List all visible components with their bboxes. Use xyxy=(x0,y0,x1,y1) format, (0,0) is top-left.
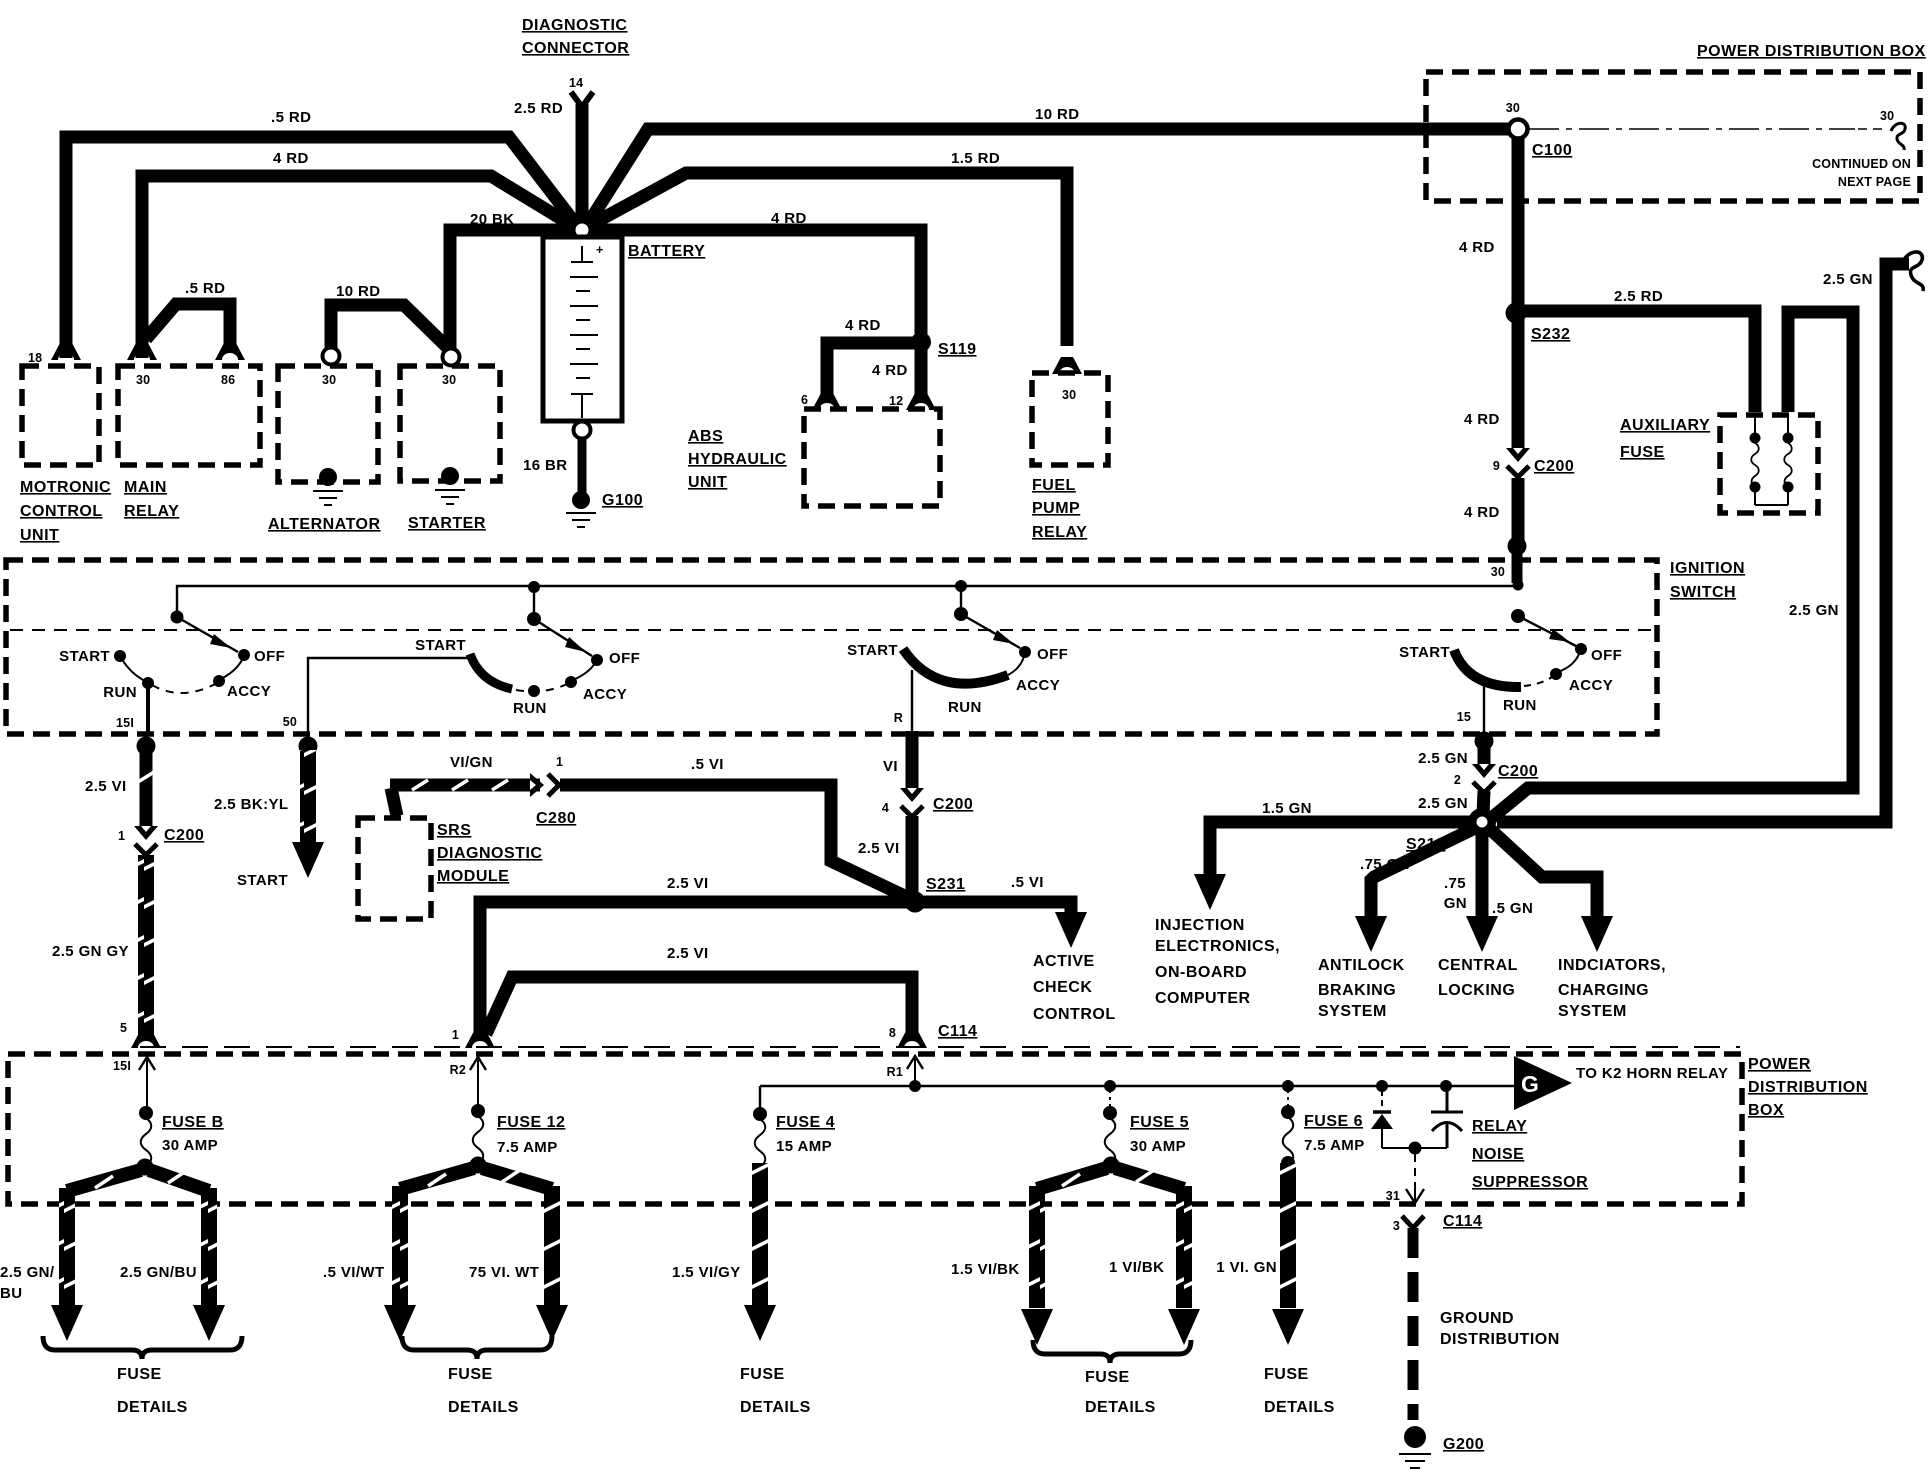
battery junction terminal circle xyxy=(574,222,591,239)
wire 1.5 RD battery to fuel pump relay xyxy=(587,173,1067,346)
wire 1.5 VI/BK fuse 5 left branch xyxy=(1037,1168,1107,1189)
svg-text:UNIT: UNIT xyxy=(688,474,727,491)
svg-text:START: START xyxy=(1399,644,1450,661)
power distribution box (lower) xyxy=(8,1054,1742,1204)
fuse 5 details brace xyxy=(1033,1340,1191,1363)
starter internal ground xyxy=(441,467,459,485)
ignition switch box xyxy=(6,560,1657,734)
svg-text:HYDRAULIC: HYDRAULIC xyxy=(688,451,787,468)
svg-text:DETAILS: DETAILS xyxy=(1085,1399,1156,1416)
svg-text:1: 1 xyxy=(118,829,125,843)
svg-text:DIAGNOSTIC: DIAGNOSTIC xyxy=(437,845,542,862)
alternator internal ground xyxy=(319,468,337,486)
svg-text:MOTRONIC: MOTRONIC xyxy=(20,479,111,496)
svg-text:50: 50 xyxy=(283,715,297,729)
wire .5 GN S213 to indicators charging system xyxy=(1491,830,1597,924)
wire 10 RD battery to C100 xyxy=(586,129,1508,227)
svg-text:2.5 GN: 2.5 GN xyxy=(1789,602,1839,619)
svg-text:C100: C100 xyxy=(1532,142,1572,159)
svg-text:CONTROL: CONTROL xyxy=(1033,1006,1116,1023)
svg-text:C200: C200 xyxy=(164,827,204,844)
svg-text:14: 14 xyxy=(569,76,583,90)
svg-text:C200: C200 xyxy=(1498,763,1538,780)
auxiliary fuse element left xyxy=(1754,416,1756,434)
ignition switch supply bus xyxy=(177,586,1518,617)
svg-text:UNIT: UNIT xyxy=(20,527,59,544)
svg-text:4 RD: 4 RD xyxy=(872,362,908,379)
wire 1 VI GN fuse 6 to fuse details xyxy=(1280,1163,1296,1308)
wire 2.5 BK:YL ignition 50 to starter circuit xyxy=(300,750,316,845)
svg-text:ANTILOCK: ANTILOCK xyxy=(1318,957,1405,974)
svg-text:ALTERNATOR: ALTERNATOR xyxy=(268,516,381,533)
auxiliary fuse element right xyxy=(1787,416,1789,434)
wire 4 RD C200 to ignition switch xyxy=(1512,478,1525,541)
svg-text:STARTER: STARTER xyxy=(408,515,486,532)
svg-text:G200: G200 xyxy=(1443,1436,1484,1453)
svg-text:ACCY: ACCY xyxy=(1016,677,1060,694)
svg-text:30: 30 xyxy=(1880,109,1894,123)
wire 1.5 VI/GY fuse 4 to fuse details xyxy=(752,1163,768,1306)
svg-text:ACCY: ACCY xyxy=(227,683,271,700)
svg-text:SYSTEM: SYSTEM xyxy=(1318,1003,1387,1020)
fuse 4 xyxy=(753,1107,767,1121)
svg-text:.75: .75 xyxy=(1444,875,1466,892)
wire VI ignition R to C200 xyxy=(906,731,919,792)
svg-text:DETAILS: DETAILS xyxy=(448,1399,519,1416)
fuse 8 xyxy=(139,1106,153,1120)
svg-text:START: START xyxy=(59,648,110,665)
svg-text:FUSE 12: FUSE 12 xyxy=(497,1114,565,1131)
svg-text:OFF: OFF xyxy=(254,648,285,665)
SRS diagnostic module xyxy=(358,818,431,919)
svg-text:30: 30 xyxy=(1506,101,1520,115)
wafer 4 moving contact (thick arc) xyxy=(1454,650,1521,687)
svg-text:C280: C280 xyxy=(536,810,576,827)
svg-text:15 AMP: 15 AMP xyxy=(776,1138,832,1155)
svg-text:12: 12 xyxy=(889,394,903,408)
svg-text:RELAY: RELAY xyxy=(1032,524,1087,541)
svg-text:S119: S119 xyxy=(938,341,976,358)
fuse 12 xyxy=(471,1104,485,1118)
svg-text:FUEL: FUEL xyxy=(1032,477,1076,494)
svg-text:4 RD: 4 RD xyxy=(1464,504,1500,521)
svg-text:9: 9 xyxy=(1493,459,1500,473)
wire 2.5 GN C200 to S213 xyxy=(1483,791,1484,815)
wire 2.5 GN/BU fuse 8 right branch xyxy=(149,1170,209,1191)
ignition switch wafer 3 xyxy=(955,580,967,592)
svg-text:R2: R2 xyxy=(450,1063,466,1077)
wire 2.5 VI S231 to power distribution box pin 1 xyxy=(480,902,909,1036)
splice S119 xyxy=(911,332,931,352)
wire 2.5 VI C200 to S231 xyxy=(906,816,919,898)
svg-text:.5 VI: .5 VI xyxy=(1011,874,1044,891)
svg-text:2.5 VI: 2.5 VI xyxy=(858,840,900,857)
wire 4 RD C100 to S232 xyxy=(1512,139,1525,306)
terminal 15I junction xyxy=(137,737,156,756)
svg-text:2.5 GN/BU: 2.5 GN/BU xyxy=(120,1264,197,1281)
svg-text:30: 30 xyxy=(136,373,150,387)
wire 75 VI WT fuse 12 right branch xyxy=(482,1168,552,1189)
svg-text:S232: S232 xyxy=(1531,326,1570,343)
wire 2.5 RD S232 to auxiliary fuse xyxy=(1522,311,1755,412)
pin 5 terminal xyxy=(131,1031,161,1048)
wire 2.5 GN auxiliary fuse to S213 loop xyxy=(1489,312,1853,820)
svg-text:GROUND: GROUND xyxy=(1440,1310,1514,1327)
svg-text:1.5 VI/GY: 1.5 VI/GY xyxy=(672,1264,741,1281)
battery negative terminal xyxy=(574,422,591,439)
svg-text:R: R xyxy=(894,711,903,725)
svg-text:2.5 GN: 2.5 GN xyxy=(1823,271,1873,288)
svg-text:2.5 GN GY: 2.5 GN GY xyxy=(52,943,129,960)
connector C100 xyxy=(1509,120,1528,139)
svg-text:LOCKING: LOCKING xyxy=(1438,982,1515,999)
svg-text:DIAGNOSTIC: DIAGNOSTIC xyxy=(522,17,627,34)
svg-text:10 RD: 10 RD xyxy=(1035,106,1080,123)
terminal 15 lead xyxy=(1483,686,1485,734)
ground G100 xyxy=(572,491,590,509)
svg-text:2.5 GN: 2.5 GN xyxy=(1418,750,1468,767)
svg-text:SUPPRESSOR: SUPPRESSOR xyxy=(1472,1174,1588,1191)
power distribution box (top) xyxy=(1426,72,1920,201)
svg-text:.5 GN: .5 GN xyxy=(1492,900,1533,917)
continuation line to next page xyxy=(1529,128,1855,130)
to K2 horn relay triangle xyxy=(1514,1056,1572,1110)
svg-text:ACCY: ACCY xyxy=(1569,677,1613,694)
wire 10 RD alternator to starter xyxy=(331,305,450,350)
svg-text:FUSE 6: FUSE 6 xyxy=(1304,1113,1363,1130)
svg-text:2.5 VI: 2.5 VI xyxy=(667,875,709,892)
terminal 15I lead xyxy=(146,683,150,734)
terminal 15 junction xyxy=(1475,732,1494,751)
svg-text:ABS: ABS xyxy=(688,428,723,445)
svg-text:1 VI. GN: 1 VI. GN xyxy=(1216,1259,1277,1276)
battery xyxy=(543,237,622,421)
diagnostic connector terminal fork xyxy=(571,92,582,107)
svg-text:C114: C114 xyxy=(938,1023,977,1040)
continuation curl symbol xyxy=(1891,123,1905,150)
fuse 6 xyxy=(1282,1080,1294,1092)
svg-text:POWER DISTRIBUTION BOX: POWER DISTRIBUTION BOX xyxy=(1697,43,1926,60)
svg-text:2.5 VI: 2.5 VI xyxy=(85,778,127,795)
svg-text:C200: C200 xyxy=(1534,458,1574,475)
svg-text:3: 3 xyxy=(1393,1219,1400,1233)
svg-text:30: 30 xyxy=(442,373,456,387)
svg-text:6: 6 xyxy=(801,393,808,407)
wire .5 VI S231 to active check control xyxy=(922,902,1071,921)
fuel pump relay pin 30 xyxy=(1052,357,1082,374)
svg-text:FUSE: FUSE xyxy=(1620,444,1665,461)
svg-text:NEXT PAGE: NEXT PAGE xyxy=(1838,175,1911,189)
svg-text:START: START xyxy=(847,642,898,659)
svg-text:.75 GN: .75 GN xyxy=(1360,856,1410,873)
svg-text:2: 2 xyxy=(1454,773,1461,787)
terminal 15I arrow into box xyxy=(146,1060,148,1110)
wire 4 RD battery to main relay 30 xyxy=(142,176,578,358)
ignition switch wafer 2 xyxy=(528,581,540,593)
main relay pins 30 and 86 xyxy=(127,343,157,360)
svg-text:30 AMP: 30 AMP xyxy=(162,1137,218,1154)
svg-text:RELAY: RELAY xyxy=(1472,1118,1527,1135)
svg-text:GN: GN xyxy=(1444,895,1467,912)
wire .5 RD main relay 86 branch xyxy=(146,304,230,352)
svg-text:CONNECTOR: CONNECTOR xyxy=(522,40,629,57)
svg-text:.5 VI: .5 VI xyxy=(691,756,724,773)
wire .75 GN S213 to central locking xyxy=(1476,834,1489,924)
svg-text:15I: 15I xyxy=(116,716,134,730)
svg-text:FUSE B: FUSE B xyxy=(162,1114,224,1131)
terminal 31 dashed lead xyxy=(1414,1154,1416,1190)
svg-text:IGNITION: IGNITION xyxy=(1670,560,1745,577)
alternator xyxy=(278,366,378,482)
svg-text:7.5 AMP: 7.5 AMP xyxy=(1304,1137,1365,1154)
svg-text:ON-BOARD: ON-BOARD xyxy=(1155,964,1247,981)
svg-text:1: 1 xyxy=(556,755,563,769)
starter xyxy=(400,366,500,481)
svg-text:BRAKING: BRAKING xyxy=(1318,982,1396,999)
svg-text:C114: C114 xyxy=(1443,1213,1482,1230)
svg-text:OFF: OFF xyxy=(1591,647,1622,664)
mechanical coupling dashed line xyxy=(10,629,1652,631)
svg-text:2.5 BK:YL: 2.5 BK:YL xyxy=(214,796,288,813)
svg-text:CENTRAL: CENTRAL xyxy=(1438,957,1518,974)
splice S213 xyxy=(1468,808,1496,836)
wire 1.5 GN S213 to injection electronics xyxy=(1210,822,1470,882)
svg-text:1 VI/BK: 1 VI/BK xyxy=(1109,1259,1164,1276)
svg-text:FUSE: FUSE xyxy=(1085,1369,1130,1386)
wire VI/GN SRS module to C280 xyxy=(391,788,397,816)
fuse 8 details brace xyxy=(43,1336,242,1359)
svg-text:2.5 RD: 2.5 RD xyxy=(1614,288,1663,305)
wire 2.5 GN ignition 15 to C200 xyxy=(1478,745,1491,768)
svg-text:INDCIATORS,: INDCIATORS, xyxy=(1558,957,1666,974)
svg-text:4 RD: 4 RD xyxy=(273,150,309,167)
svg-text:86: 86 xyxy=(221,373,235,387)
svg-text:RUN: RUN xyxy=(1503,697,1537,714)
svg-text:DETAILS: DETAILS xyxy=(1264,1399,1335,1416)
ground distribution wire xyxy=(1408,1228,1419,1420)
svg-text:2.5 GN: 2.5 GN xyxy=(1418,795,1468,812)
svg-text:DISTRIBUTION: DISTRIBUTION xyxy=(1440,1331,1560,1348)
svg-text:VI: VI xyxy=(883,758,898,775)
ignition switch wafer 4 xyxy=(1511,609,1525,623)
svg-text:BATTERY: BATTERY xyxy=(628,243,705,260)
fuse 12 details brace xyxy=(402,1336,552,1359)
wire .75 GN S213 to antilock braking system xyxy=(1371,829,1473,924)
svg-text:FUSE: FUSE xyxy=(1264,1366,1309,1383)
svg-text:+: + xyxy=(596,243,604,257)
svg-text:4 RD: 4 RD xyxy=(845,317,881,334)
svg-text:ACTIVE: ACTIVE xyxy=(1033,953,1095,970)
svg-text:75 VI. WT: 75 VI. WT xyxy=(469,1264,539,1281)
svg-text:10 RD: 10 RD xyxy=(336,283,381,300)
relay noise suppressor capacitor xyxy=(1440,1080,1452,1092)
svg-text:RUN: RUN xyxy=(513,700,547,717)
connector C114 face line xyxy=(140,1046,1740,1048)
svg-text:31: 31 xyxy=(1386,1189,1400,1203)
wire 20 BK battery to starter xyxy=(450,230,575,350)
svg-text:S231: S231 xyxy=(926,876,965,893)
wire 2.5 GN continuation from S213 to next page xyxy=(1497,264,1909,822)
svg-text:SYSTEM: SYSTEM xyxy=(1558,1003,1627,1020)
wire 4 RD S119 to ABS pin 12 xyxy=(915,348,928,397)
svg-text:FUSE: FUSE xyxy=(117,1366,162,1383)
terminal 50 lead xyxy=(308,658,468,734)
svg-text:BOX: BOX xyxy=(1748,1102,1784,1119)
relay noise suppressor diode xyxy=(1376,1080,1388,1092)
svg-text:4 RD: 4 RD xyxy=(1464,411,1500,428)
svg-text:OFF: OFF xyxy=(1037,646,1068,663)
svg-text:FUSE: FUSE xyxy=(448,1366,493,1383)
svg-text:30: 30 xyxy=(322,373,336,387)
svg-text:START: START xyxy=(415,637,466,654)
svg-text:RUN: RUN xyxy=(103,684,137,701)
terminal R lead xyxy=(911,670,913,732)
svg-text:CONTROL: CONTROL xyxy=(20,503,103,520)
svg-text:FUSE 5: FUSE 5 xyxy=(1130,1114,1189,1131)
wire 4 RD battery to S119 xyxy=(588,230,921,334)
svg-text:2.5 RD: 2.5 RD xyxy=(514,100,563,117)
svg-text:R1: R1 xyxy=(887,1065,903,1079)
fuse supply bus R1 xyxy=(760,1085,1516,1087)
svg-text:COMPUTER: COMPUTER xyxy=(1155,990,1251,1007)
terminal R2 arrow into box xyxy=(477,1060,479,1108)
splice S231 xyxy=(905,892,926,913)
terminal 50 junction xyxy=(299,737,318,756)
svg-text:15: 15 xyxy=(1457,710,1471,724)
svg-text:30: 30 xyxy=(1062,388,1076,402)
svg-text:1.5 RD: 1.5 RD xyxy=(951,150,1000,167)
wire 2.5 GN/BU fuse 8 left branch xyxy=(67,1170,141,1191)
svg-text:SWITCH: SWITCH xyxy=(1670,584,1736,601)
svg-text:4 RD: 4 RD xyxy=(771,210,807,227)
svg-text:RELAY: RELAY xyxy=(124,503,179,520)
svg-text:15I: 15I xyxy=(113,1059,131,1073)
fuel pump relay xyxy=(1032,373,1108,465)
ground G200 xyxy=(1404,1426,1426,1448)
relay noise suppressor junction xyxy=(1382,1147,1447,1149)
svg-text:NOISE: NOISE xyxy=(1472,1146,1524,1163)
svg-text:5: 5 xyxy=(120,1021,127,1035)
svg-text:.5 RD: .5 RD xyxy=(185,280,225,297)
wire 1 VI/BK fuse 5 right branch xyxy=(1115,1168,1184,1189)
wire 2.5 VI ignition 15I to C200 xyxy=(140,750,153,830)
motronic control unit xyxy=(22,366,99,465)
svg-text:8: 8 xyxy=(889,1026,896,1040)
svg-text:INJECTION: INJECTION xyxy=(1155,917,1245,934)
svg-text:20 BK: 20 BK xyxy=(470,211,515,228)
svg-text:OFF: OFF xyxy=(609,650,640,667)
svg-text:G100: G100 xyxy=(602,492,643,509)
terminal 30 junction dot xyxy=(1508,537,1527,556)
svg-text:BU: BU xyxy=(0,1285,22,1302)
svg-text:ACCY: ACCY xyxy=(583,686,627,703)
svg-text:30 AMP: 30 AMP xyxy=(1130,1138,1186,1155)
svg-text:DETAILS: DETAILS xyxy=(740,1399,811,1416)
wire 4 RD S232 to ignition switch 30 xyxy=(1512,319,1525,452)
svg-text:SRS: SRS xyxy=(437,822,471,839)
svg-text:7.5 AMP: 7.5 AMP xyxy=(497,1139,558,1156)
svg-text:RUN: RUN xyxy=(948,699,982,716)
continuation curl symbol 2.5 GN xyxy=(1903,252,1923,291)
svg-text:2.5 GN/: 2.5 GN/ xyxy=(0,1264,55,1281)
wire .5 RD battery to motronic control unit xyxy=(66,137,578,358)
auxiliary fuse box xyxy=(1720,415,1818,513)
wire 16 BR battery to G100 xyxy=(578,438,587,494)
wire 2.5 RD battery to diagnostic connector xyxy=(576,104,589,226)
terminal R1 xyxy=(909,1080,921,1092)
svg-text:2.5 VI: 2.5 VI xyxy=(667,945,709,962)
svg-text:POWER: POWER xyxy=(1748,1056,1811,1073)
svg-text:CONTINUED ON: CONTINUED ON xyxy=(1812,157,1911,171)
svg-text:AUXILIARY: AUXILIARY xyxy=(1620,417,1710,434)
svg-text:C200: C200 xyxy=(933,796,973,813)
svg-text:1.5 VI/BK: 1.5 VI/BK xyxy=(951,1261,1020,1278)
svg-text:VI/GN: VI/GN xyxy=(450,754,493,771)
svg-text:DISTRIBUTION: DISTRIBUTION xyxy=(1748,1079,1868,1096)
wire 4 RD S119 to ABS pin 6 xyxy=(827,343,918,397)
svg-text:CHARGING: CHARGING xyxy=(1558,982,1649,999)
svg-text:1.5 GN: 1.5 GN xyxy=(1262,800,1312,817)
wire 2.5 GN GY C200 to power distribution box pin 5 xyxy=(138,855,154,1038)
main relay xyxy=(118,366,260,465)
svg-text:.5 RD: .5 RD xyxy=(271,109,311,126)
wafer 3 moving contact (thick arc) xyxy=(903,649,1008,684)
ABS hydraulic unit xyxy=(804,409,940,506)
wafer 2 moving contact (thick arc) xyxy=(470,654,512,689)
svg-text:16 BR: 16 BR xyxy=(523,457,568,474)
svg-text:30: 30 xyxy=(1491,565,1505,579)
fuse 5 xyxy=(1104,1080,1116,1092)
wire 2.5 VI pin 1 to pin 8 xyxy=(486,977,912,1036)
svg-text:MODULE: MODULE xyxy=(437,868,509,885)
svg-text:FUSE 4: FUSE 4 xyxy=(776,1114,835,1131)
svg-text:.5 VI/WT: .5 VI/WT xyxy=(323,1264,385,1281)
svg-text:TO K2 HORN RELAY: TO K2 HORN RELAY xyxy=(1576,1065,1728,1082)
svg-text:FUSE: FUSE xyxy=(740,1366,785,1383)
svg-text:G: G xyxy=(1521,1071,1539,1097)
svg-text:MAIN: MAIN xyxy=(124,479,167,496)
svg-text:4: 4 xyxy=(882,801,889,815)
svg-text:DETAILS: DETAILS xyxy=(117,1399,188,1416)
svg-text:18: 18 xyxy=(28,351,42,365)
wire .5 VI/WT fuse 12 left branch xyxy=(400,1168,474,1189)
svg-text:ELECTRONICS,: ELECTRONICS, xyxy=(1155,938,1280,955)
wire .5 VI C280 to S231 xyxy=(560,785,911,899)
splice S232 xyxy=(1506,303,1527,324)
svg-text:1: 1 xyxy=(452,1028,459,1042)
svg-text:4 RD: 4 RD xyxy=(1459,239,1495,256)
svg-text:START: START xyxy=(237,872,288,889)
svg-text:CHECK: CHECK xyxy=(1033,979,1092,996)
ignition switch wafer 1 xyxy=(171,611,184,624)
svg-text:PUMP: PUMP xyxy=(1032,500,1080,517)
